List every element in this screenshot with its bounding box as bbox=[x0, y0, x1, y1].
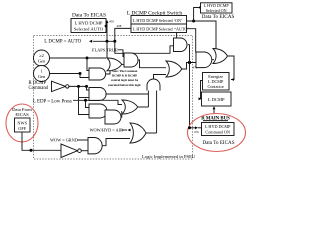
svg-text:Command: Command bbox=[29, 86, 49, 91]
wire stub G2 bottom bbox=[79, 97, 90, 99]
svg-text:WOW = GRND: WOW = GRND bbox=[50, 138, 78, 143]
svg-text:executed before this logic: executed before this logic bbox=[108, 83, 141, 87]
svg-text:408: 408 bbox=[117, 24, 122, 28]
box NWS OFF bbox=[15, 118, 31, 132]
wire GB output to GC bbox=[212, 59, 214, 61]
node dot circle1 branch bbox=[86, 57, 89, 60]
up and-gate G5 bbox=[147, 79, 160, 91]
svg-text:L HYD DCMP: L HYD DCMP bbox=[75, 21, 103, 26]
wire junction down to command box arrow bbox=[189, 63, 191, 128]
inverter INV1 bbox=[52, 81, 66, 91]
wire GA top input from B2 bottom bbox=[176, 33, 178, 39]
red ellipse left bbox=[6, 104, 38, 142]
wire O1 output to G5 left input bbox=[138, 106, 149, 108]
wire B2 row1 right to junction bbox=[187, 21, 217, 49]
and-gate GB bbox=[196, 52, 212, 68]
timer circle 2 Gen bbox=[34, 50, 50, 66]
svg-text:control logic must be: control logic must be bbox=[111, 78, 139, 82]
svg-text:L EDP = Low Press: L EDP = Low Press bbox=[33, 99, 72, 104]
box Energize L DCMP Contactor bbox=[203, 73, 230, 91]
wire R MAIN BUS up arrow to L DCMP bbox=[213, 108, 215, 115]
svg-text:WOW/HYD = AIR: WOW/HYD = AIR bbox=[90, 127, 124, 132]
and-gate G3 bbox=[89, 104, 107, 118]
svg-text:Selected AUTO: Selected AUTO bbox=[74, 27, 104, 32]
wire G1 output to OR1 back bbox=[106, 71, 110, 74]
wire GC output to energize box bbox=[228, 56, 235, 80]
wire G5 left input down bbox=[147, 91, 149, 108]
wire energize output to L DCMP box bbox=[199, 81, 203, 99]
svg-text:Command ON: Command ON bbox=[205, 129, 230, 134]
and-gate N2 bbox=[88, 138, 102, 154]
and-gate G1 bbox=[89, 68, 106, 80]
svg-text:L HYD DCMP Selected ‘ON’: L HYD DCMP Selected ‘ON’ bbox=[133, 18, 182, 23]
or-gate O2 bbox=[130, 123, 146, 143]
wire G5 output up to OR big bottom input bbox=[154, 75, 167, 80]
node dot circle2 branch bbox=[79, 72, 82, 75]
node dot INV1 b bbox=[85, 85, 88, 88]
wire INV1 a down to G2 bottom and G3 bottom bbox=[79, 86, 90, 114]
svg-text:FLAPS TRUE: FLAPS TRUE bbox=[92, 48, 118, 53]
svg-text:L DCMP: L DCMP bbox=[208, 97, 225, 102]
wire G2 output to G5 left input bbox=[106, 93, 149, 95]
wire N2 output up to O2 bbox=[102, 139, 130, 146]
wire dot circle1 down to G1 top bbox=[87, 58, 89, 71]
wire circle2 output bbox=[50, 73, 81, 75]
node dot1 bbox=[106, 40, 109, 43]
wire L EDP branch down to G3 top bbox=[86, 100, 90, 107]
wire INV2 output to N2 bbox=[81, 150, 88, 152]
box B2 cockpit switch rows bbox=[131, 16, 187, 33]
wire L EDP line bbox=[73, 100, 122, 104]
or-gate O1 bbox=[122, 100, 138, 114]
node dot right junction bbox=[188, 61, 191, 64]
wire B2 row2 to left with bend down bbox=[115, 28, 131, 41]
svg-text:Note: The Common: Note: The Common bbox=[112, 69, 138, 73]
node dot NWS wire bbox=[30, 149, 33, 152]
svg-text:Data To EICAS: Data To EICAS bbox=[202, 14, 235, 20]
wire OR1 output to AND2 bbox=[122, 63, 124, 65]
svg-text:EICAS: EICAS bbox=[15, 112, 29, 117]
wire AND2 output to OR big top input bbox=[138, 60, 166, 68]
wire arrow into command box bbox=[190, 127, 197, 129]
timer circle 1 Gen bbox=[34, 66, 50, 82]
svg-text:NWS: NWS bbox=[17, 121, 27, 126]
wire WOW to N2 bbox=[78, 139, 89, 141]
wire AIR to O2 with arrow bbox=[122, 129, 128, 131]
wire GA output down to junction bbox=[188, 45, 190, 63]
wire dot circle2 down to G1 bottom bbox=[80, 74, 89, 78]
svg-text:Gen: Gen bbox=[38, 74, 46, 79]
box B3 L HYD DCMP Selected ON bbox=[201, 3, 233, 13]
node dot3 bbox=[192, 20, 195, 23]
svg-text:L HYD DCMP Selected ‘‘AUTO’: L HYD DCMP Selected ‘‘AUTO’ bbox=[133, 27, 189, 32]
or-gate ORbig bbox=[166, 61, 182, 77]
or-gate GC bbox=[213, 49, 228, 64]
red ellipse right bbox=[188, 114, 246, 152]
wire G4 output to O1 bbox=[121, 112, 122, 118]
and-gate G2 bbox=[89, 88, 106, 101]
wire FLAPS TRUE to AND2 bbox=[118, 50, 125, 57]
box L HYD DCMP Command ON bbox=[202, 123, 235, 136]
svg-text:DCMP & R DCMP: DCMP & R DCMP bbox=[112, 74, 137, 78]
and-gate G4 bbox=[105, 110, 121, 124]
box B1 L HYD DCMP Selected AUTO bbox=[71, 19, 106, 33]
svg-text:1: 1 bbox=[40, 69, 42, 74]
wire B1 dot to vertical bbox=[106, 25, 107, 27]
box L DCMP bbox=[202, 92, 232, 106]
and-gate AND2 bbox=[124, 53, 138, 67]
svg-text:Gen: Gen bbox=[38, 59, 46, 64]
svg-text:L HYD DCMP: L HYD DCMP bbox=[205, 124, 231, 129]
svg-text:OFF: OFF bbox=[18, 126, 26, 131]
note text bbox=[108, 69, 141, 87]
node dot2 bbox=[113, 40, 116, 43]
wire circle1 output bbox=[50, 57, 107, 59]
wire ORbig output to right junction bbox=[182, 63, 196, 70]
wire dot3 up to box B3 bbox=[194, 8, 198, 22]
wire O2 output to G5 right input bbox=[146, 132, 157, 134]
node dot on B1 right edge bbox=[105, 25, 108, 28]
or-gate OR1 bbox=[107, 58, 122, 71]
svg-text:Data To EICAS: Data To EICAS bbox=[72, 13, 106, 19]
wire L DCMP = AUTO with left arrow bbox=[93, 40, 115, 42]
wire GB top input from B2 row2 right bbox=[187, 29, 196, 53]
wire dot2 down then right to AND GA bbox=[115, 41, 174, 53]
svg-text:476: 476 bbox=[194, 130, 199, 134]
node dot L EDP branch bbox=[84, 99, 87, 102]
node dot INV1 a bbox=[77, 85, 80, 88]
node dot command junction bbox=[188, 126, 191, 129]
wire INV1 b down to G2 top bbox=[87, 86, 90, 90]
wire INV1 output bbox=[69, 85, 87, 87]
wire NWS to inverter INV2 bbox=[22, 132, 61, 150]
svg-text:Selected ON: Selected ON bbox=[206, 8, 227, 13]
wire G3 output to G4 bbox=[105, 110, 107, 112]
and-gate GA below switch bbox=[174, 38, 187, 52]
inverter INV2 bbox=[61, 144, 78, 158]
svg-text:459: 459 bbox=[109, 20, 114, 24]
wire vertical to EICAS with up arrow bbox=[106, 22, 108, 41]
svg-text:L DCMP = AUTO: L DCMP = AUTO bbox=[44, 39, 81, 44]
svg-text:Data To EICAS: Data To EICAS bbox=[202, 140, 234, 146]
svg-text:≥2: ≥2 bbox=[39, 53, 44, 58]
wire G5 right input down bbox=[156, 91, 158, 134]
svg-text:Contactor: Contactor bbox=[207, 84, 224, 89]
svg-text:Logic Implemented in PSEU: Logic Implemented in PSEU bbox=[142, 154, 196, 159]
wire dot1 down to OR1 bbox=[106, 41, 108, 57]
dashed PSEU boundary box bbox=[34, 36, 193, 160]
